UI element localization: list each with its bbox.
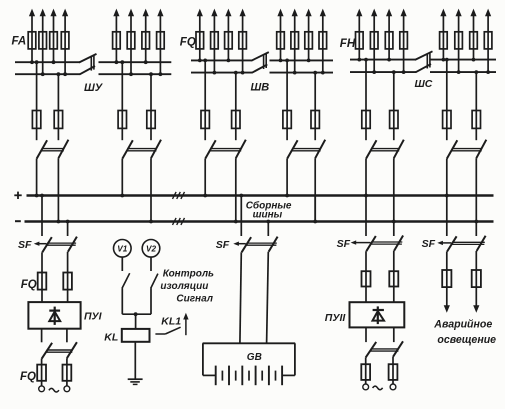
svg-text:ШВ: ШВ [251, 82, 270, 94]
svg-text:V2: V2 [146, 244, 156, 253]
svg-text:освещение: освещение [437, 334, 496, 346]
svg-text:FH: FH [340, 38, 356, 50]
svg-text:Контроль: Контроль [163, 268, 214, 279]
svg-text:ПУI: ПУI [84, 311, 103, 323]
svg-text:V1: V1 [117, 244, 127, 253]
svg-text:SF: SF [18, 239, 32, 251]
svg-text:FA: FA [12, 35, 27, 47]
svg-text:KL1: KL1 [161, 316, 181, 328]
svg-text:SF: SF [216, 239, 230, 251]
svg-text:Сигнал: Сигнал [176, 293, 213, 304]
svg-text:SF: SF [422, 238, 436, 250]
svg-text:FQ: FQ [180, 36, 196, 48]
svg-text:ШС: ШС [415, 78, 433, 90]
svg-text:изоляции: изоляции [160, 281, 208, 292]
svg-text:ШУ: ШУ [84, 82, 104, 94]
svg-text:FQ: FQ [20, 371, 36, 383]
svg-text:KL: KL [104, 332, 118, 344]
svg-text:шины: шины [253, 210, 283, 221]
svg-text:Аварийное: Аварийное [433, 318, 492, 330]
svg-text:GB: GB [247, 352, 262, 363]
svg-text:FQ: FQ [21, 279, 37, 291]
svg-text:ПУII: ПУII [325, 312, 347, 324]
svg-text:SF: SF [337, 238, 351, 250]
